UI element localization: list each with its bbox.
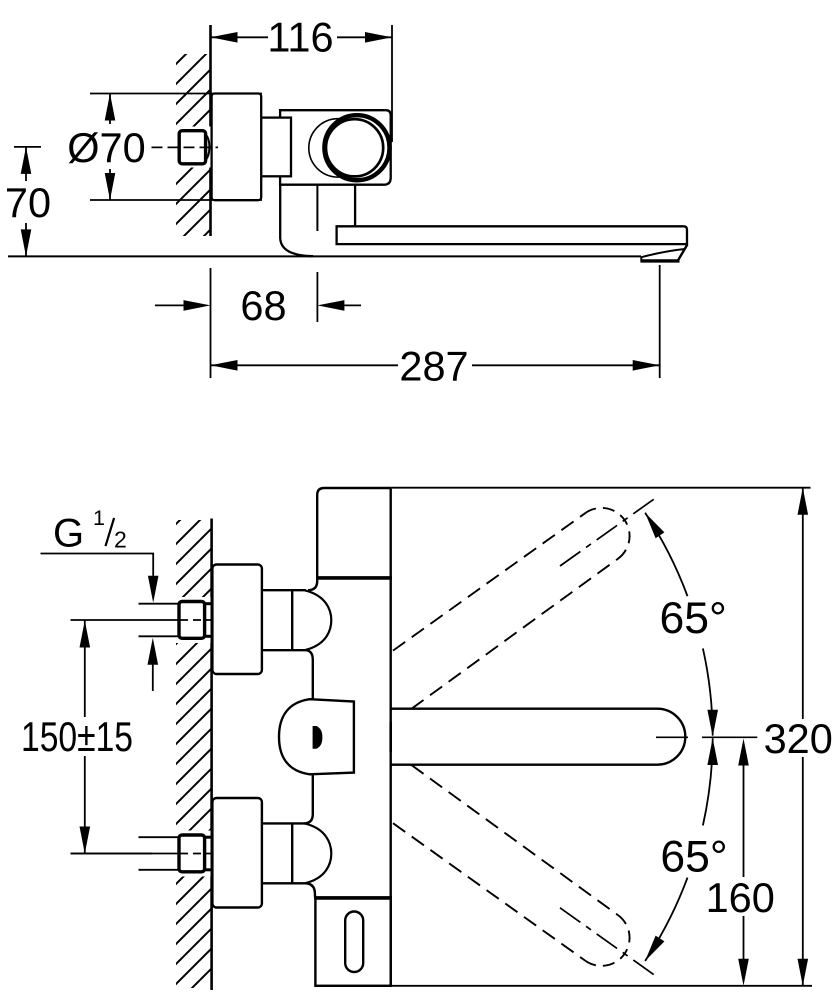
- dimension 287: [211, 265, 660, 378]
- wall surface line (bottom view): [210, 519, 213, 991]
- svg-text:65°: 65°: [660, 594, 727, 643]
- wall flange (top view): [212, 94, 262, 201]
- svg-text:2: 2: [114, 527, 127, 553]
- dimension 116: [211, 25, 393, 142]
- top inlet centerline: [71, 619, 180, 621]
- dimension 160: [743, 752, 745, 959]
- body column top cap (bottom view): [317, 488, 391, 578]
- fillet below bottom connector: [306, 883, 315, 897]
- inlet centerline dashed (top view): [152, 146, 219, 148]
- body right edge (top view): [354, 185, 356, 226]
- bottom inlet centerline: [71, 853, 180, 855]
- inner body line (top view): [316, 185, 318, 231]
- bottom inlet nut (bottom view): [179, 835, 205, 872]
- white patch behind bottom inlet (bottom view): [174, 831, 211, 877]
- bottom connector (bottom view): [262, 823, 306, 883]
- spout root line: [389, 722, 392, 752]
- knob back edge circle (top view): [309, 119, 367, 177]
- wall hatching (top view): [176, 54, 211, 236]
- fillet above bottom connector: [304, 814, 313, 823]
- G1/2 leader line: [41, 553, 155, 555]
- 65 degree arc top: [645, 513, 687, 596]
- column left edge segment: [312, 660, 314, 700]
- thermostat dome (bottom view): [279, 699, 354, 774]
- dimension Ø70: [90, 94, 262, 201]
- bottom supply pipe (bottom view): [139, 837, 181, 870]
- svg-text:150±15: 150±15: [21, 713, 133, 760]
- dimension 70: [14, 147, 41, 257]
- dimension 68: [155, 268, 361, 378]
- baseline reference line (top view): [8, 255, 641, 257]
- column/cap junction thick line: [316, 576, 392, 580]
- white patch behind inlet nut (top view): [171, 127, 211, 168]
- thermostat black mark: [313, 726, 323, 749]
- wall hatching (bottom view): [176, 520, 212, 988]
- mounting slot: [345, 912, 363, 973]
- knob housing (top view): [280, 110, 391, 185]
- column left edge fillet to top connector: [308, 578, 317, 591]
- dimension 150±15: [71, 621, 153, 854]
- bottom section top thick line: [314, 896, 392, 900]
- top supply pipe (bottom view): [139, 604, 181, 637]
- knob front face circle (top view): [324, 115, 389, 180]
- neck between flange and housing (top view): [261, 118, 291, 177]
- top connector (bottom view): [262, 590, 306, 650]
- column left edge segment 2: [312, 775, 314, 815]
- svg-text:G: G: [53, 511, 84, 555]
- bottom escutcheon (bottom view): [212, 798, 262, 908]
- body column below housing (top view): [280, 185, 313, 257]
- svg-text:287: 287: [399, 343, 468, 390]
- aerator bottom thick line: [641, 259, 680, 262]
- knob inner circle (top view): [326, 119, 383, 176]
- svg-text:1: 1: [93, 506, 105, 530]
- spout centerline dashes: [656, 736, 688, 738]
- aerator (top view): [641, 245, 687, 261]
- 65 degree arc bottom: [645, 878, 687, 961]
- conical seat arc (top view): [205, 134, 209, 161]
- white patch behind top inlet (bottom view): [174, 597, 211, 643]
- svg-text:160: 160: [706, 874, 775, 921]
- top escutcheon (bottom view): [212, 565, 262, 675]
- solid spout (bottom view): [391, 709, 686, 765]
- dashed swung spout upper position: [393, 499, 655, 709]
- svg-text:320: 320: [764, 715, 833, 762]
- svg-text:68: 68: [240, 282, 286, 329]
- dimension 320: [315, 488, 812, 986]
- top check-valve dome (bottom view): [305, 590, 331, 650]
- svg-text:116: 116: [267, 14, 333, 61]
- bottom check-valve dome (bottom view): [305, 824, 331, 884]
- inlet nut (top view): [179, 131, 205, 164]
- dashed swung spout lower position: [393, 765, 655, 975]
- fillet below top connector: [306, 650, 313, 660]
- column bottom section (bottom view): [315, 898, 390, 986]
- wall surface line (top view): [209, 25, 212, 236]
- svg-text:Ø70: Ø70: [67, 124, 145, 171]
- column right edge (bottom view): [390, 578, 392, 986]
- spout (top view): [337, 226, 687, 244]
- svg-text:70: 70: [5, 179, 51, 226]
- top inlet nut (bottom view): [179, 602, 205, 639]
